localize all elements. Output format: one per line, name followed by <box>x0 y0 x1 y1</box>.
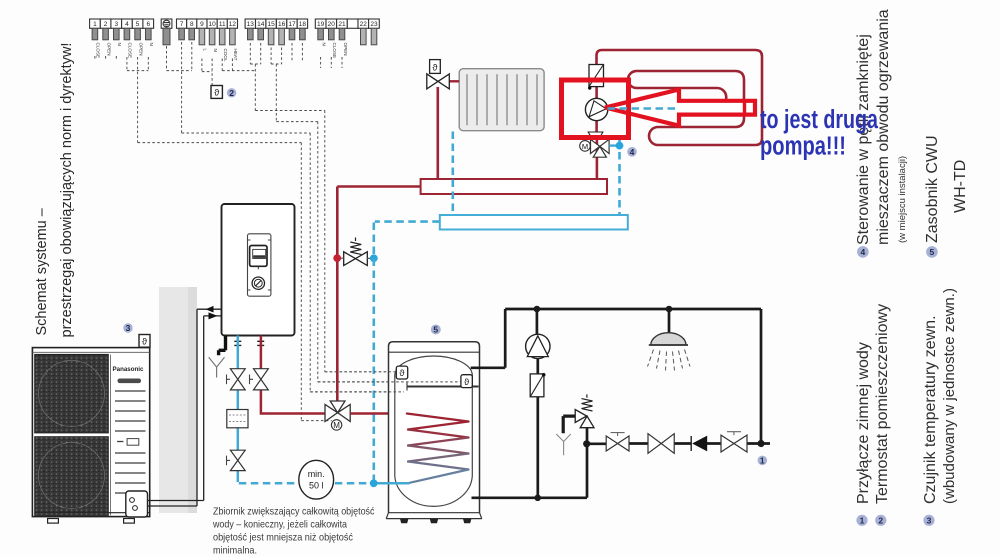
svg-text:Zasobnik CWU: Zasobnik CWU <box>924 135 941 243</box>
svg-text:3: 3 <box>927 516 932 526</box>
svg-text:2: 2 <box>878 516 883 526</box>
svg-text:pompa!!!: pompa!!! <box>760 133 846 161</box>
svg-text:20: 20 <box>328 21 336 28</box>
svg-text:ϑ: ϑ <box>399 368 405 379</box>
svg-text:21: 21 <box>338 21 346 28</box>
svg-text:22: 22 <box>360 21 368 28</box>
svg-text:ϑ: ϑ <box>432 62 438 73</box>
svg-text:Czujnik temperatury zewn.: Czujnik temperatury zewn. <box>922 315 939 504</box>
svg-text:CLOSE: CLOSE <box>96 43 101 59</box>
svg-text:wody – konieczny, jeżeli całko: wody – konieczny, jeżeli całkowita <box>212 520 347 531</box>
svg-text:2: 2 <box>229 88 234 98</box>
svg-text:12: 12 <box>229 21 237 28</box>
svg-text:5: 5 <box>930 247 935 257</box>
svg-text:14: 14 <box>257 21 265 28</box>
svg-text:objętość jest mniejsza niż obj: objętość jest mniejsza niż objętość <box>213 533 353 544</box>
svg-text:9: 9 <box>200 21 204 28</box>
svg-text:ϑ: ϑ <box>464 377 470 388</box>
svg-text:minimalna.: minimalna. <box>213 546 257 557</box>
svg-text:17: 17 <box>288 21 296 28</box>
svg-text:min.: min. <box>308 469 325 479</box>
svg-text:OPEN: OPEN <box>106 43 111 56</box>
svg-text:11: 11 <box>219 21 226 28</box>
svg-text:Schemat systemu –: Schemat systemu – <box>34 207 50 335</box>
svg-text:to jest druga: to jest druga <box>760 106 879 134</box>
svg-text:Termostat pomieszczeniowy: Termostat pomieszczeniowy <box>874 304 891 504</box>
svg-text:5: 5 <box>136 21 140 28</box>
svg-text:19: 19 <box>317 21 325 28</box>
svg-text:3: 3 <box>126 323 131 333</box>
svg-text:8: 8 <box>190 21 194 28</box>
svg-text:L: L <box>203 49 208 52</box>
svg-text:M: M <box>582 142 588 151</box>
svg-text:4: 4 <box>861 247 866 257</box>
svg-text:23: 23 <box>370 21 378 28</box>
svg-text:N: N <box>213 49 218 52</box>
svg-text:(wbudowany w jednostce zewn.): (wbudowany w jednostce zewn.) <box>941 288 958 504</box>
svg-text:6: 6 <box>146 21 150 28</box>
svg-text:13: 13 <box>247 21 255 28</box>
svg-text:4: 4 <box>630 147 635 157</box>
svg-text:18: 18 <box>299 21 307 28</box>
svg-text:ϑ: ϑ <box>214 88 220 99</box>
svg-text:4: 4 <box>125 21 129 28</box>
svg-text:OPEN: OPEN <box>343 43 348 56</box>
svg-text:HEAT: HEAT <box>233 49 238 61</box>
svg-text:2: 2 <box>104 21 108 28</box>
svg-text:ϑ: ϑ <box>142 336 148 347</box>
svg-text:7: 7 <box>180 21 184 28</box>
svg-text:N: N <box>117 43 122 46</box>
svg-text:WH-TD: WH-TD <box>952 160 969 213</box>
svg-text:N: N <box>321 43 326 46</box>
svg-text:OPEN: OPEN <box>138 43 143 56</box>
svg-text:1: 1 <box>93 21 97 28</box>
svg-text:M: M <box>333 421 340 430</box>
svg-text:N: N <box>149 43 154 46</box>
svg-text:10: 10 <box>208 21 216 28</box>
svg-text:1: 1 <box>760 455 765 465</box>
svg-text:5: 5 <box>433 325 438 335</box>
svg-text:CLOSE: CLOSE <box>332 43 337 59</box>
svg-text:Sterowanie w pętli zamkniętej: Sterowanie w pętli zamkniętej <box>855 34 872 245</box>
svg-text:(w miejscu instalacji): (w miejscu instalacji) <box>897 156 908 243</box>
svg-text:3: 3 <box>114 21 118 28</box>
svg-text:Przyłącze zimnej wody: Przyłącze zimnej wody <box>855 342 872 504</box>
svg-text:CLOSE: CLOSE <box>128 43 133 59</box>
svg-text:1: 1 <box>860 516 865 526</box>
svg-text:Panasonic: Panasonic <box>113 366 145 373</box>
svg-text:Zbiornik zwiększający całkowit: Zbiornik zwiększający całkowitą objętość <box>213 507 375 518</box>
svg-text:50 l: 50 l <box>309 481 324 491</box>
svg-text:16: 16 <box>278 21 286 28</box>
svg-text:15: 15 <box>267 21 275 28</box>
svg-text:COOL: COOL <box>223 49 228 62</box>
svg-text:przestrzegaj obowiązujących no: przestrzegaj obowiązujących norm i dyrek… <box>59 43 75 338</box>
